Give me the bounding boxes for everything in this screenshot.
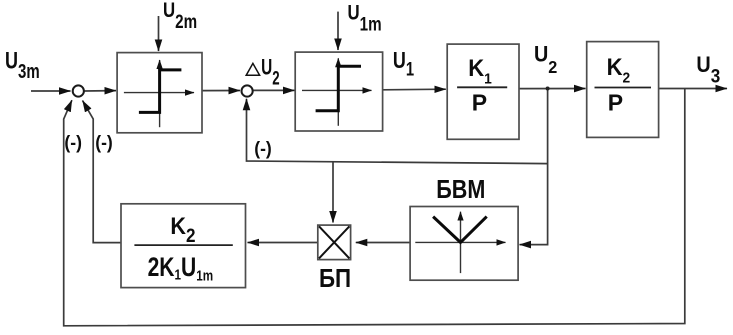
svg-text:K2: K2 [607,53,631,86]
svg-text:(-): (-) [64,132,82,153]
svg-text:P: P [472,90,487,116]
svg-text:K2: K2 [170,212,195,246]
svg-text:(-): (-) [254,138,272,159]
svg-text:БВМ: БВМ [436,175,485,204]
svg-text:K1: K1 [468,54,492,87]
svg-text:U3: U3 [696,53,720,87]
svg-text:2K1U1m: 2K1U1m [148,252,214,283]
svg-text:U2m: U2m [163,0,197,32]
svg-text:U1m: U1m [348,2,382,35]
svg-text:U3m: U3m [5,48,40,82]
svg-text:P: P [608,90,623,116]
svg-text:(-): (-) [95,132,113,153]
svg-text:БП: БП [319,264,351,293]
svg-text:U2: U2 [534,42,557,77]
svg-text:U2: U2 [261,56,280,89]
svg-text:U1: U1 [393,48,414,80]
